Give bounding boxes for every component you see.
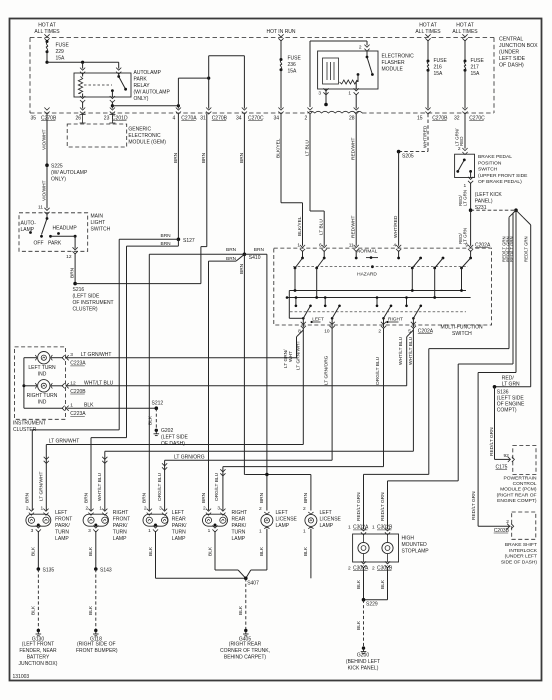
svg-text:RED/LT GRN: RED/LT GRN (509, 236, 514, 262)
svg-text:3: 3 (88, 528, 91, 534)
wire RED/LT GRN brake switch to S231 (458, 183, 471, 211)
svg-text:15A: 15A (288, 69, 298, 75)
ground G200 (346, 646, 380, 671)
svg-text:MODULE (GEM): MODULE (GEM) (128, 140, 166, 146)
svg-text:PARK/: PARK/ (113, 523, 128, 529)
svg-text:ALL TIMES: ALL TIMES (34, 29, 60, 35)
right front lamp pin 2 connector (86, 505, 94, 515)
svg-text:AUTO-: AUTO- (21, 221, 37, 227)
MLS AUTO-LAMP label (21, 221, 37, 234)
relay coil (78, 73, 82, 97)
svg-text:LICENSE: LICENSE (276, 517, 298, 523)
wire WHT/RED dashed connector 15 to S205 (399, 114, 429, 152)
cluster pin 3 connector (51, 352, 111, 367)
svg-text:COMPT): COMPT) (497, 407, 517, 413)
label HOT AT ALL TIMES (fuse 229) (34, 23, 60, 36)
svg-text:HAZARD: HAZARD (357, 271, 377, 277)
svg-text:WHT/LT BLU: WHT/LT BLU (398, 336, 404, 365)
svg-text:RIGHT: RIGHT (388, 316, 403, 322)
svg-text:CORNER OF TRUNK,: CORNER OF TRUNK, (220, 648, 270, 654)
sheet number 131003 (13, 674, 30, 680)
brake shift interlock connector 2 C203B (494, 519, 514, 534)
svg-text:TURN: TURN (113, 530, 127, 536)
svg-text:FUSE: FUSE (288, 56, 302, 62)
CJB connector 31 C270B (200, 108, 227, 122)
svg-text:LT GRN/WHT: LT GRN/WHT (81, 352, 112, 358)
wire BLK dashed S143 to G118 (88, 569, 96, 631)
wire BRN lower branch to right front lamp pin 2 (83, 438, 126, 511)
splice S212 (152, 401, 164, 411)
GEM connector stub 26 (80, 115, 86, 124)
svg-text:ELECTRONIC: ELECTRONIC (382, 54, 415, 60)
wire BLK left front to S135 (31, 531, 39, 569)
brake shift interlock label (501, 542, 538, 565)
MFS pin6 switch arm (315, 251, 325, 298)
svg-text:BLK: BLK (380, 579, 386, 589)
svg-text:LT GRN/WHT: LT GRN/WHT (296, 341, 302, 370)
MFS pin 2 connector (378, 322, 386, 335)
svg-text:BRN: BRN (25, 492, 31, 503)
wire BRN to left license lamp 1 pin 2 (259, 475, 267, 511)
svg-text:BEHIND CARPET): BEHIND CARPET) (224, 655, 267, 661)
license lamp 1 pin 2 connector (259, 506, 262, 512)
wire fuse217 to connector 32 (464, 70, 466, 108)
svg-text:12: 12 (66, 254, 72, 260)
flasher pin 2 connector (364, 45, 369, 52)
wire BLK cluster to S212 (68, 407, 157, 409)
svg-text:RED/WHT: RED/WHT (351, 216, 357, 238)
svg-text:BLK: BLK (148, 546, 154, 556)
svg-text:FRONT: FRONT (113, 517, 130, 523)
svg-text:RED/LT GRN: RED/LT GRN (471, 491, 477, 520)
svg-text:LAMP: LAMP (21, 227, 35, 233)
svg-text:ORG/LT BLU: ORG/LT BLU (214, 472, 220, 501)
svg-text:1: 1 (259, 529, 262, 535)
left rear park/turn lamp (143, 514, 168, 526)
splice S407 (244, 577, 259, 587)
fuse 217 15A (464, 58, 485, 77)
svg-text:OF INSTRUMENT: OF INSTRUMENT (73, 300, 114, 306)
svg-text:(LEFT FRONT: (LEFT FRONT (22, 642, 54, 648)
svg-text:LT GRN/WHT: LT GRN/WHT (39, 472, 45, 501)
MFS right switch arms (411, 251, 472, 298)
svg-text:INSTRUMENT: INSTRUMENT (13, 421, 46, 427)
wire BRN S127 upper branch (119, 233, 178, 430)
wire BRN S410 left branch to left rear lamp pin 2 (142, 247, 245, 511)
svg-text:BRN: BRN (239, 152, 245, 163)
svg-text:STOPLAMP: STOPLAMP (402, 549, 430, 555)
svg-text:1: 1 (303, 529, 306, 535)
svg-text:BLK: BLK (148, 415, 154, 425)
MFS internal bus upper (289, 289, 466, 292)
svg-text:HOT AT: HOT AT (456, 23, 474, 29)
svg-text:HOT IN RUN: HOT IN RUN (266, 29, 295, 35)
relay pin connector bottom-right (110, 96, 115, 103)
svg-text:BLK: BLK (238, 605, 244, 615)
svg-text:12: 12 (70, 380, 76, 386)
svg-text:INTERLOCK: INTERLOCK (509, 548, 538, 554)
MFS pin 5 connector (408, 322, 416, 335)
fuse 216 15A (427, 58, 448, 77)
right rear park/turn lamp (203, 514, 228, 526)
wire VIO/WHT S225 to MLS pin 11 (42, 165, 48, 208)
svg-text:WHT: WHT (288, 351, 294, 362)
svg-text:BLK: BLK (356, 620, 362, 630)
CJB connector 2 (305, 108, 313, 122)
left front park/turn lamp (26, 514, 51, 526)
wire fuse236 to connector 34 (280, 70, 282, 109)
wire RED/LT GRN fan C to brake shift interlock (471, 210, 516, 526)
license lamp 2 pin 1 (303, 529, 306, 535)
MFS pin8 output contact (289, 291, 312, 328)
svg-text:WHT/RED: WHT/RED (422, 125, 428, 148)
MFS C202A top label (475, 242, 491, 248)
HMSL pin 1 C302B connector (372, 525, 393, 535)
svg-text:ONLY): ONLY) (51, 177, 66, 183)
multi-function switch label (441, 325, 484, 338)
svg-text:IND: IND (38, 399, 47, 405)
powertrain control module box (513, 446, 536, 475)
svg-text:92: 92 (504, 453, 510, 459)
svg-text:LEFT SIDE: LEFT SIDE (499, 56, 526, 62)
svg-text:BLK: BLK (88, 605, 94, 615)
svg-text:S135: S135 (43, 567, 55, 573)
central junction box label (499, 37, 538, 69)
inline connector on left rear turn wire (162, 463, 167, 470)
cluster pin 12 connector (51, 380, 113, 395)
left license lamp 2 label (320, 510, 342, 529)
svg-text:34: 34 (236, 116, 242, 122)
svg-text:BRN: BRN (201, 152, 207, 163)
svg-text:32: 32 (454, 116, 460, 122)
svg-text:BLK: BLK (31, 546, 37, 556)
splice S143 (94, 567, 112, 573)
svg-text:BRAKE SHIFT: BRAKE SHIFT (505, 542, 537, 548)
svg-text:3: 3 (159, 505, 162, 511)
MFS pin 8 connector (298, 322, 306, 335)
wire RED/LT GRN S231 to MFS pin 9 (458, 210, 471, 246)
svg-text:RIGHT: RIGHT (232, 510, 248, 516)
wire RED/LT GRN fan A to high mounted stoplamp pin C302A (356, 210, 516, 529)
HMSL pin 2 C302B connector (372, 561, 393, 571)
svg-text:1: 1 (348, 525, 351, 531)
CJB connector 32 C270C (454, 108, 485, 122)
HMSL pin 2 C302A connector (348, 561, 369, 571)
svg-text:CENTRAL: CENTRAL (499, 37, 523, 43)
svg-text:S212: S212 (152, 401, 164, 407)
wire BLK HMSL to S229 (356, 567, 388, 600)
splice S231 (469, 208, 473, 212)
svg-text:FUSE: FUSE (56, 43, 70, 49)
generic electronic module label (128, 127, 166, 146)
svg-text:GENERIC: GENERIC (128, 127, 151, 133)
MFS RIGHT label (386, 316, 403, 323)
svg-text:LAMP: LAMP (232, 536, 246, 542)
flasher capacitor block (323, 58, 339, 84)
wire WHT/LT BLU to right front lamp pin 1 (97, 451, 413, 510)
svg-text:PANEL): PANEL) (475, 199, 493, 205)
svg-text:OF BRAKE PEDAL): OF BRAKE PEDAL) (478, 179, 522, 185)
svg-text:MODULE: MODULE (382, 67, 404, 73)
svg-text:NORMAL: NORMAL (357, 248, 378, 254)
CJB connector 15 C270B (417, 108, 448, 122)
svg-text:S205: S205 (402, 154, 414, 160)
svg-text:RED/LT GRN: RED/LT GRN (356, 492, 362, 521)
GEM connector stub 23 (109, 115, 115, 124)
wire BLK dashed S229 to G200 (356, 600, 364, 648)
MLS park output wire (51, 236, 76, 248)
HMSL bulb 2 (382, 534, 393, 562)
CJB connector 34 C270C (236, 108, 264, 122)
splice S229 (362, 598, 378, 607)
svg-text:SWITCH: SWITCH (452, 331, 472, 337)
wire LT GRN/ORG MFS pin10 to left rear lamp pin 3 (157, 327, 332, 510)
CJB connector 28 (349, 108, 359, 122)
electronic flasher module label (382, 54, 415, 73)
right front park/turn lamp (83, 514, 108, 526)
MFS pin 9 connector (465, 242, 473, 251)
svg-text:REAR: REAR (172, 517, 186, 523)
CJB connector 26 (76, 108, 86, 122)
left turn ind label (28, 365, 56, 378)
svg-text:CLUSTER: CLUSTER (13, 427, 37, 433)
svg-text:SWITCH: SWITCH (478, 167, 498, 173)
svg-text:LT GRN/ORG: LT GRN/ORG (174, 455, 205, 461)
relay link dashed (84, 84, 112, 86)
flasher pin 2 wire (310, 41, 367, 107)
wire BLK left rear to S407 (148, 531, 246, 578)
instrument cluster label (13, 421, 46, 434)
main light switch box (19, 213, 88, 252)
MFS normal-hazard selector (355, 248, 400, 277)
svg-text:CONTROL: CONTROL (513, 481, 537, 487)
feed connector at CJB top for fuse 229 (44, 34, 49, 41)
electronic flasher module U2 box (318, 51, 378, 89)
svg-text:2: 2 (305, 116, 308, 122)
svg-text:216: 216 (434, 65, 443, 71)
right turn indicator lamp (35, 380, 52, 392)
svg-text:HEADLMP: HEADLMP (53, 226, 78, 232)
flasher resistor (340, 80, 358, 84)
svg-text:2: 2 (458, 146, 461, 152)
svg-text:OFF: OFF (34, 241, 44, 247)
svg-text:ORG/LT BLU: ORG/LT BLU (157, 472, 163, 501)
svg-text:FRONT BUMPER): FRONT BUMPER) (76, 648, 118, 654)
left license lamp 1 (261, 512, 273, 529)
wire relay output to pin 23 (111, 102, 114, 109)
svg-text:LAMP: LAMP (113, 536, 127, 542)
high mounted stoplamp label (402, 536, 430, 555)
svg-text:34: 34 (274, 116, 280, 122)
svg-text:FUSE: FUSE (434, 58, 448, 64)
flasher pin 3 connector (318, 88, 328, 96)
right rear lamp label (232, 510, 248, 542)
svg-text:HOT AT: HOT AT (38, 23, 56, 29)
cluster internal ground bus (22, 358, 63, 409)
svg-text:BRN: BRN (83, 492, 89, 503)
svg-text:LT GRN: LT GRN (463, 228, 468, 244)
fuse 229 15A (46, 40, 70, 62)
high mounted stoplamp box (353, 534, 399, 562)
license lamp 1 pin 1 (259, 529, 262, 535)
label HOT AT ALL TIMES (fuse 216) (415, 23, 441, 36)
wire LT GRN/WHT branch to cluster pin 3 (66, 357, 297, 359)
svg-text:PARK: PARK (134, 77, 148, 83)
wire BLK dashed S407 to G405 (238, 578, 246, 630)
MFS pin5 output contact (405, 296, 422, 327)
svg-text:1: 1 (208, 528, 211, 534)
svg-text:TURN: TURN (232, 530, 246, 536)
svg-text:MAIN: MAIN (91, 214, 104, 220)
svg-text:(W/ AUTOLAMP: (W/ AUTOLAMP (51, 170, 88, 176)
ground G130 (19, 629, 58, 667)
svg-text:(LEFT SIDE: (LEFT SIDE (73, 294, 101, 300)
svg-text:OF DASH): OF DASH) (499, 63, 524, 69)
svg-text:FUSE: FUSE (471, 58, 485, 64)
svg-text:(UPPER FRONT SIDE: (UPPER FRONT SIDE (478, 173, 528, 179)
HMSL pin 1 C302A connector (348, 525, 369, 535)
svg-text:2: 2 (359, 45, 362, 51)
svg-text:LT GRN: LT GRN (463, 190, 468, 206)
svg-text:RED/LT GRN: RED/LT GRN (523, 236, 528, 262)
svg-text:VIO/WHT: VIO/WHT (42, 180, 48, 201)
left front lamp pin 1 connector (41, 505, 49, 515)
wire pin31 top to pin34 (209, 56, 245, 109)
ground G202 (154, 428, 189, 447)
ground G118 (76, 629, 118, 654)
svg-text:S229: S229 (366, 601, 378, 607)
svg-text:(UNDER LEFT: (UNDER LEFT (505, 554, 537, 560)
svg-text:10: 10 (324, 329, 330, 335)
PCM connector pin 92 C175 (496, 453, 515, 470)
wire RED/LT GRN S136 to PCM C175 (489, 387, 510, 460)
wire relay output bus to pin 4 (112, 104, 180, 108)
svg-text:REAR: REAR (232, 517, 246, 523)
wire fuse 216 (427, 40, 429, 61)
wire BRN S410 bottom branch (239, 254, 246, 474)
svg-text:TURN: TURN (55, 530, 69, 536)
CJB connector 34 (274, 108, 284, 122)
svg-text:G200: G200 (357, 653, 369, 659)
wire fuse216 to connector 15 (427, 70, 429, 108)
wire LT GRN/RED connector 32 to brake switch (454, 114, 465, 149)
svg-text:LT BLU: LT BLU (304, 140, 310, 156)
right turn ind label (27, 393, 58, 406)
svg-text:15A: 15A (56, 56, 66, 62)
svg-text:2: 2 (144, 505, 147, 511)
svg-text:S143: S143 (100, 567, 112, 573)
svg-text:BRN: BRN (161, 233, 172, 239)
svg-text:2: 2 (348, 566, 351, 572)
wire fuse 217 (464, 40, 466, 61)
MLS wiper (42, 214, 49, 235)
label HOT AT ALL TIMES (fuse 217) (452, 23, 478, 36)
svg-text:SWITCH: SWITCH (91, 227, 111, 233)
svg-text:KICK PANEL): KICK PANEL) (348, 666, 379, 672)
svg-text:15A: 15A (434, 71, 444, 77)
generic electronic module box (67, 124, 127, 147)
svg-text:(RIGHT SIDE OF: (RIGHT SIDE OF (77, 642, 116, 648)
svg-text:BRN: BRN (303, 492, 309, 503)
svg-text:MOUNTED: MOUNTED (402, 542, 428, 548)
svg-text:ALL TIMES: ALL TIMES (415, 29, 441, 35)
svg-text:BLK: BLK (31, 605, 37, 615)
svg-text:2: 2 (86, 505, 89, 511)
CJB connector 4 C270A (173, 108, 198, 122)
MFS C202A bottom label (418, 329, 434, 335)
svg-text:35: 35 (31, 116, 37, 122)
left rear lamp pin 3 connector (159, 505, 167, 515)
svg-text:BLK: BLK (88, 546, 94, 556)
svg-text:LAMP: LAMP (276, 523, 290, 529)
feed connector at CJB top for fuse 216 (425, 34, 430, 41)
svg-text:S216: S216 (73, 287, 85, 293)
wire BLK right rear to S407 (207, 531, 246, 578)
svg-text:PARK: PARK (48, 241, 62, 247)
left turn indicator lamp (35, 352, 52, 364)
svg-text:POWERTRAIN: POWERTRAIN (503, 475, 537, 481)
svg-text:LEFT: LEFT (320, 510, 332, 516)
MFS LEFT label (311, 316, 324, 323)
right rear lamp pin 2 connector (203, 505, 211, 515)
wire relay coil to GEM pin 26 (82, 102, 84, 109)
svg-text:RED/WHT: RED/WHT (351, 138, 357, 160)
splice S205 (397, 150, 414, 160)
cluster pin 1 connector (62, 403, 94, 418)
relay pin connector bottom-left (80, 96, 85, 103)
svg-text:23: 23 (104, 116, 110, 122)
svg-text:1: 1 (348, 91, 351, 97)
wire BRN connector 34 to S410 (239, 114, 245, 255)
wire relay feed horizontal (47, 61, 119, 64)
wire BLK right front to S143 (88, 531, 96, 569)
svg-text:217: 217 (471, 65, 480, 71)
svg-text:26: 26 (76, 116, 82, 122)
left rear lamp pin 1 connector (148, 525, 158, 534)
right front lamp pin 1 connector (99, 505, 107, 515)
MFS pin 4 connector (393, 242, 401, 251)
svg-text:15A: 15A (471, 71, 481, 77)
svg-text:AUTOLAMP: AUTOLAMP (134, 70, 162, 76)
svg-text:28: 28 (349, 116, 355, 122)
svg-text:LAMP: LAMP (55, 536, 69, 542)
CJB connector 35 C270B (31, 108, 57, 122)
main light switch label (91, 214, 111, 233)
license lamp 2 pin 2 connector (303, 506, 306, 512)
right front lamp pin 3 connector (88, 525, 98, 534)
brake pedal position switch label (478, 154, 528, 185)
MFS pin1 switch arm (294, 251, 304, 291)
MLS OFF label (34, 241, 44, 247)
MFS pin 6 connector (319, 242, 327, 251)
svg-text:HOT AT: HOT AT (419, 23, 437, 29)
central junction box dashed outline (30, 38, 494, 114)
svg-text:(LEFT KICK: (LEFT KICK (475, 192, 503, 198)
svg-text:LAMP: LAMP (172, 536, 186, 542)
ground G405 (220, 629, 270, 661)
svg-text:WHT/LT BLU: WHT/LT BLU (97, 472, 103, 501)
right rear lamp pin 1 connector (208, 525, 218, 534)
svg-text:JUNCTION BOX: JUNCTION BOX (499, 43, 538, 49)
svg-text:FENDER, NEAR: FENDER, NEAR (19, 648, 57, 654)
svg-text:LEFT TURN: LEFT TURN (28, 365, 56, 371)
MFS pin10 output contact (324, 296, 341, 327)
MFS pin 1 connector (297, 242, 305, 251)
svg-text:G202: G202 (161, 428, 173, 434)
wire fuse229 to junction (45, 52, 48, 64)
svg-text:1: 1 (148, 528, 151, 534)
MFS internal bus lower (286, 296, 471, 299)
